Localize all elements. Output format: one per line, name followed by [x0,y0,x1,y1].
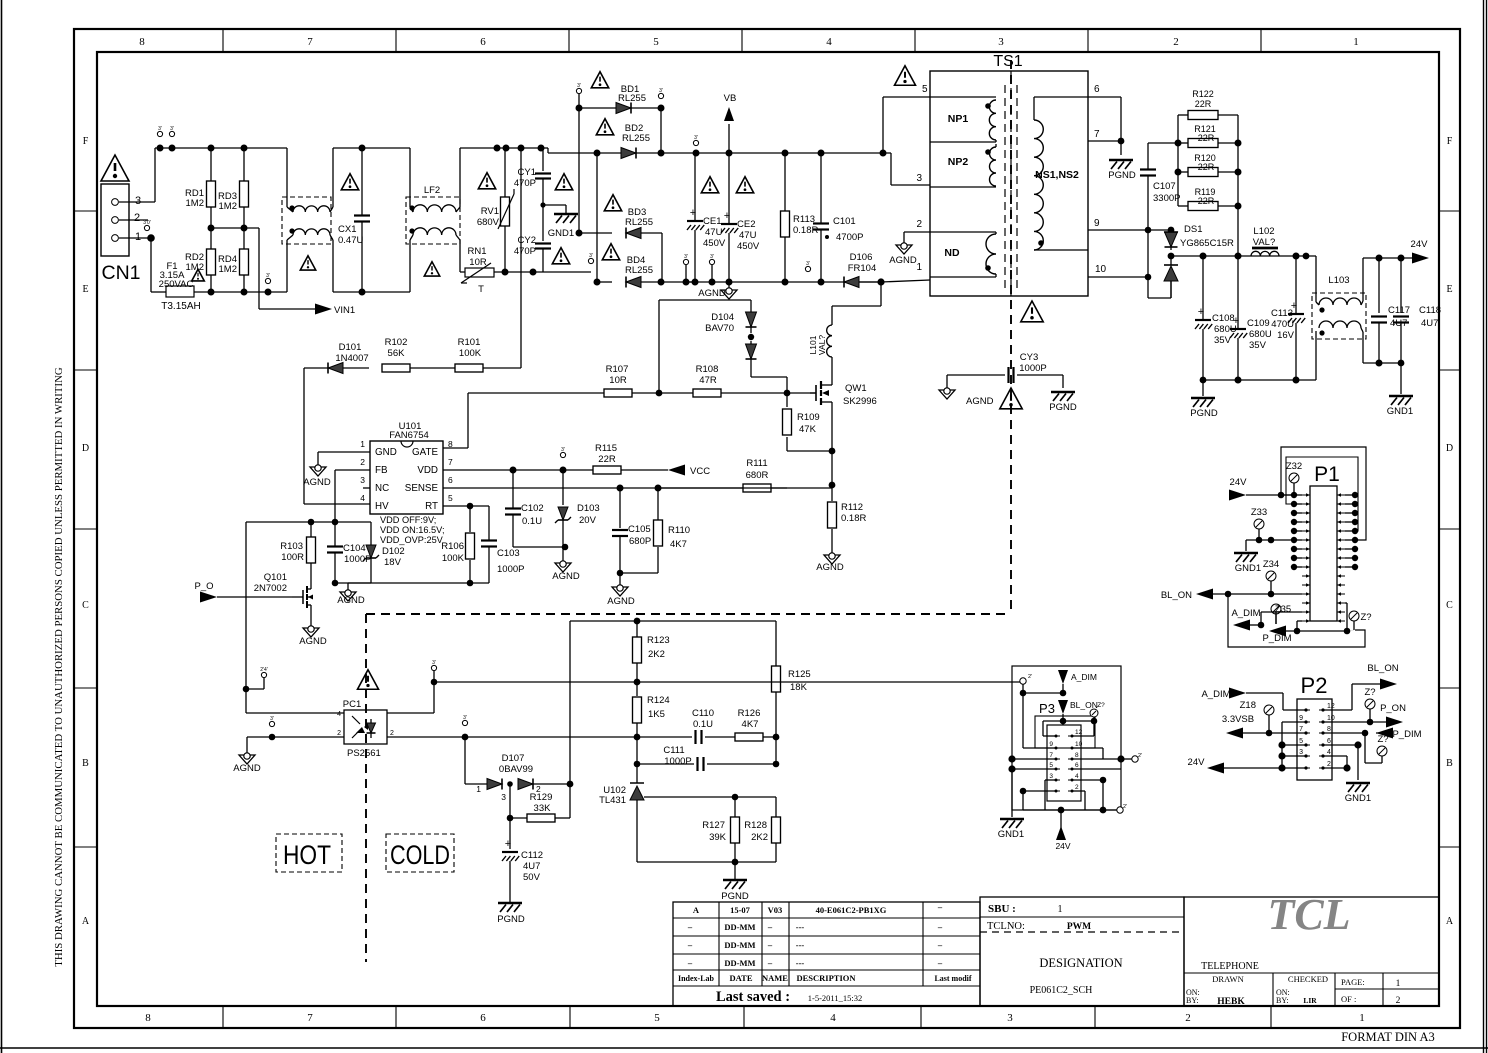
svg-text:TS1: TS1 [993,53,1022,70]
svg-text:8: 8 [448,439,453,449]
svg-text:FAN6754: FAN6754 [389,430,429,441]
svg-text:BAV70: BAV70 [705,323,734,334]
svg-text:R127: R127 [702,820,725,831]
svg-text:0BAV99: 0BAV99 [499,764,533,775]
svg-text:1: 1 [1396,979,1401,989]
svg-text:5: 5 [922,84,928,95]
capacitor CE1 [687,153,726,282]
svg-text:4: 4 [1075,773,1079,780]
svg-text:3300P: 3300P [1153,193,1180,204]
capacitor C103 [481,541,524,584]
wire [335,469,370,471]
svg-text:C118: C118 [1419,305,1441,316]
node BL_ON [1161,589,1302,602]
svg-text:AGND: AGND [607,596,635,607]
svg-text:R129: R129 [530,792,553,803]
svg-text:+: + [690,207,696,219]
svg-text:A_DIM: A_DIM [1231,608,1260,619]
svg-text:C101: C101 [833,216,856,227]
inductor L101 [808,325,832,357]
ground PGND [497,903,525,925]
resistor R107 [604,364,632,397]
node A_DIM [1201,688,1306,711]
svg-text:6: 6 [1094,84,1100,95]
svg-text:RL255: RL255 [618,93,646,104]
svg-text:FR104: FR104 [848,263,877,274]
wire [637,861,776,863]
svg-text:R108: R108 [696,364,719,375]
node P_DIM [1262,603,1350,644]
svg-text:–: – [687,922,693,932]
svg-text:4K7: 4K7 [670,539,687,550]
svg-text:C109: C109 [1247,318,1270,329]
svg-text:1M2: 1M2 [219,201,237,212]
node 24V feed [1229,477,1294,501]
svg-text:1: 1 [1359,1012,1365,1024]
capacitor C110 [637,708,735,744]
wire [1171,255,1316,257]
svg-text:V03: V03 [768,905,783,915]
svg-text:24V: 24V [1055,841,1070,851]
capacitor C101 [813,153,863,282]
svg-text:–: – [767,958,773,968]
svg-text:C112: C112 [521,850,543,861]
svg-text:3': 3' [806,261,810,267]
svg-text:B: B [82,758,89,769]
capacitor C104 [327,522,371,586]
svg-text:3': 3' [577,83,581,89]
node tick [462,720,467,725]
svg-text:LF2: LF2 [424,185,440,196]
warning symbol [358,670,379,690]
ground PGND [1190,380,1218,419]
wire [1228,594,1365,647]
svg-text:8: 8 [1327,726,1331,733]
svg-text:10R: 10R [609,375,627,386]
connector P3 [1012,666,1121,810]
warning symbol [478,173,495,189]
diode DS1 [1164,224,1234,259]
test point Z18 [1240,700,1274,736]
svg-text:D: D [1446,443,1453,454]
svg-text:D101: D101 [339,342,362,353]
svg-text:QW1: QW1 [845,383,867,394]
wire [1294,494,1302,496]
svg-text:NP1: NP1 [948,113,969,125]
svg-text:F: F [83,136,89,147]
svg-text:4: 4 [826,36,832,48]
node tick [683,259,688,264]
warning symbol [424,262,439,276]
test point Z32 [1286,461,1302,495]
ground PGND [721,862,749,902]
resistor R106 [441,533,474,586]
svg-text:L103: L103 [1328,275,1349,286]
svg-text:5: 5 [1299,738,1303,745]
svg-text:R103: R103 [280,541,303,552]
svg-text:24V: 24V [1188,757,1206,768]
svg-text:1000P: 1000P [344,554,371,565]
svg-text:8: 8 [139,36,145,48]
resistor R108 [693,364,816,397]
node VCC [668,465,710,478]
svg-text:P2: P2 [1301,673,1328,698]
svg-text:100K: 100K [459,348,482,359]
node tick [269,721,274,726]
warning symbol [300,256,315,270]
warning symbol [895,66,929,95]
svg-text:VCC: VCC [690,466,710,477]
svg-text:RN1: RN1 [467,246,486,257]
svg-text:47K: 47K [799,424,817,435]
svg-text:C117: C117 [1388,305,1410,316]
svg-text:VDD: VDD [417,465,438,476]
svg-text:RL255: RL255 [622,133,650,144]
svg-text:680V: 680V [477,217,500,228]
svg-text:Z33: Z33 [1251,507,1267,518]
wire [1363,257,1412,259]
svg-text:R125: R125 [788,669,811,680]
svg-text:---: --- [796,922,805,932]
svg-text:22R: 22R [598,454,616,465]
node A_DIM [1020,670,1097,696]
resistor RD2 [185,228,216,292]
svg-text:PWM: PWM [1067,922,1091,932]
svg-text:5: 5 [1049,762,1053,769]
node BL_ON [1323,663,1399,710]
svg-text:D103: D103 [577,503,600,514]
resistor R129 [510,784,570,822]
svg-text:20V: 20V [579,515,597,526]
svg-text:Last saved :: Last saved : [716,989,790,1005]
warning symbol [701,177,718,193]
svg-text:2: 2 [1327,761,1331,768]
svg-text:2N7002: 2N7002 [254,583,287,594]
svg-text:3: 3 [916,173,922,184]
svg-text:VDD_OVP:25V: VDD_OVP:25V [380,535,444,545]
svg-text:3: 3 [1049,773,1053,780]
isolation dashed line [365,614,367,962]
warning symbol [555,174,572,190]
svg-text:DS1: DS1 [1184,224,1202,235]
svg-text:DRAWN: DRAWN [1212,974,1243,984]
svg-text:10R: 10R [469,257,487,268]
svg-text:7: 7 [448,457,453,467]
svg-text:250VAC: 250VAC [159,279,194,290]
svg-text:GND1: GND1 [998,829,1024,840]
svg-text:CN1: CN1 [101,262,140,284]
svg-text:18K: 18K [790,682,808,693]
svg-text:5: 5 [448,493,453,503]
wire [443,487,787,489]
wire [686,281,881,283]
svg-text:1M2: 1M2 [186,262,204,273]
svg-text:VIN1: VIN1 [334,305,355,316]
svg-text:A: A [82,916,90,927]
wire [1246,539,1294,541]
svg-text:Q101: Q101 [264,572,287,583]
svg-text:0.18R: 0.18R [841,513,866,524]
resistor R109 [783,393,836,454]
svg-text:7: 7 [1299,726,1303,733]
diode BD3 [579,207,662,282]
svg-text:35V: 35V [1214,335,1232,346]
capacitor C117 [1371,258,1410,363]
svg-text:6: 6 [480,1012,486,1024]
svg-text:1: 1 [360,439,365,449]
svg-text:C113: C113 [1271,308,1293,319]
svg-text:C102: C102 [521,503,544,514]
warning symbol [591,72,608,88]
wire [1282,721,1306,723]
test point Z35 [1271,604,1291,624]
test point Z? [1365,733,1389,763]
svg-text:2: 2 [337,730,341,737]
svg-text:C: C [82,600,89,611]
svg-text:BY:: BY: [1276,996,1289,1005]
svg-text:GND1: GND1 [1235,563,1261,574]
svg-text:2: 2 [1075,784,1079,791]
thermistor RN1 [460,246,539,295]
svg-text:PE061C2_SCH: PE061C2_SCH [1030,985,1093,996]
node P_O [194,581,292,603]
wire [387,712,434,714]
svg-text:4: 4 [337,711,341,718]
ground AGND [607,573,635,607]
svg-text:40-E061C2-PB1XG: 40-E061C2-PB1XG [816,905,887,915]
transformer TS1 [916,53,1106,296]
svg-text:LIR: LIR [1303,996,1317,1005]
diode BD2 [543,123,891,159]
warning symbol [736,177,753,193]
svg-text:–: – [937,922,943,932]
svg-text:Z?: Z? [1097,702,1105,709]
svg-text:1: 1 [916,262,922,273]
wire [658,487,743,489]
connector CN1 [101,184,141,284]
capacitor C112 [502,818,543,902]
svg-text:R112: R112 [841,502,863,513]
svg-text:3': 3' [659,88,663,94]
svg-text:PGND: PGND [1049,402,1077,413]
svg-text:24V: 24V [1230,477,1248,488]
svg-text:R110: R110 [668,525,690,536]
warning symbol [604,195,621,211]
isolation dashed line HOT/COLD [1010,60,1012,614]
svg-text:7: 7 [307,36,313,48]
resistor R111 [743,458,832,492]
warning symbol [101,155,129,181]
svg-text:C108: C108 [1212,313,1235,324]
svg-text:VDD OFF:9V;: VDD OFF:9V; [380,515,436,525]
svg-text:D107: D107 [502,753,525,764]
capacitor CY3 [947,352,1063,390]
node P_DIM [1323,728,1422,741]
warning symbol [552,248,569,264]
resistor R128 [744,817,780,862]
resistor R101 [455,148,521,372]
svg-text:–: – [767,940,773,950]
node 24V [1188,757,1306,774]
svg-text:R107: R107 [606,364,629,375]
filter choke LF2 [406,148,460,292]
svg-text:GND1: GND1 [548,228,574,239]
svg-text:4U7: 4U7 [1421,318,1438,329]
resistor R112 [828,485,867,554]
svg-text:AGND: AGND [816,562,844,573]
svg-text:22R: 22R [1198,162,1215,172]
wire [831,412,833,485]
node tick [658,93,663,98]
svg-text:---: --- [796,958,805,968]
svg-text:8: 8 [1075,752,1079,759]
node tick [144,225,149,230]
svg-text:VB: VB [724,93,737,104]
svg-text:3': 3' [270,716,274,722]
wire [1088,276,1148,278]
svg-text:2': 2' [1028,674,1032,680]
svg-text:3': 3' [170,126,174,132]
svg-text:DATE: DATE [730,973,753,983]
op-amp U101 [360,421,453,545]
node P_ON [1323,703,1406,728]
wire [1088,96,1121,98]
svg-text:AGND: AGND [552,571,580,582]
ground AGND [337,583,365,606]
svg-text:Z?: Z? [1377,734,1388,745]
svg-text:–: – [937,940,943,950]
svg-text:1M2: 1M2 [219,264,237,275]
wire [596,153,598,282]
svg-text:2: 2 [1173,36,1179,48]
svg-text:3': 3' [710,254,714,260]
resistor R125 [772,621,811,740]
label HOT [276,834,342,872]
wire [882,97,884,153]
svg-text:RL255: RL255 [625,265,653,276]
wire [1177,115,1179,206]
svg-text:1000P: 1000P [497,564,524,575]
ground AGND [552,561,580,582]
label COLD [386,834,454,872]
wire [1323,755,1347,757]
svg-text:RL255: RL255 [625,217,653,228]
svg-text:3: 3 [1007,1012,1013,1024]
svg-text:AGND: AGND [889,255,917,266]
svg-text:_: _ [648,787,655,797]
svg-text:A_DIM: A_DIM [1071,672,1097,682]
ground GND1 [998,819,1024,840]
ground AGND [939,388,994,407]
svg-text:3.3VSB: 3.3VSB [1222,714,1254,725]
svg-text:FORMAT DIN A3: FORMAT DIN A3 [1341,1030,1435,1044]
svg-text:6: 6 [448,475,453,485]
capacitor C107 [1140,143,1180,298]
svg-text:R123: R123 [647,635,670,646]
svg-text:9: 9 [1049,741,1053,748]
svg-text:FB: FB [375,465,388,476]
transistor Q101 [254,572,313,628]
svg-text:680P: 680P [629,536,651,547]
wire [1008,755,1015,762]
wire [348,582,489,584]
svg-text:680R: 680R [746,470,769,481]
svg-text:R109: R109 [797,412,820,423]
wire [245,522,247,713]
svg-text:T3.15AH: T3.15AH [161,301,200,312]
resistor RD1 [185,148,216,228]
wire [246,521,335,523]
filter choke [282,148,333,292]
svg-text:15-07: 15-07 [730,905,751,915]
node tick [431,665,436,670]
svg-text:AGND: AGND [698,288,726,299]
svg-text:Last modif: Last modif [934,974,971,983]
svg-text:–: – [687,958,693,968]
svg-text:22R: 22R [1195,99,1212,109]
svg-text:AGND: AGND [966,396,994,407]
svg-text:A: A [1446,916,1454,927]
svg-text:2: 2 [390,730,394,737]
resistor R126 [735,708,776,741]
svg-text:1: 1 [135,231,141,243]
svg-text:2: 2 [134,212,140,224]
warning symbol [341,174,358,190]
svg-text:450V: 450V [703,238,726,249]
svg-text:1: 1 [1353,36,1359,48]
svg-text:470P: 470P [514,178,536,189]
wire [119,201,155,203]
svg-text:2: 2 [1396,996,1401,1006]
svg-text:Z32: Z32 [1286,461,1302,472]
svg-text:24V: 24V [1411,239,1429,250]
svg-text:3': 3' [694,135,698,141]
svg-text:CHECKED: CHECKED [1288,974,1328,984]
svg-text:2': 2' [1138,753,1142,759]
capacitor CE2 [721,153,760,282]
svg-text:Z?: Z? [1360,612,1371,623]
node A_DIM [1231,608,1302,631]
svg-text:–: – [687,940,693,950]
diode D107 [465,737,573,802]
diode DS1 second [1164,256,1178,298]
svg-text:2: 2 [916,219,922,230]
svg-text:R115: R115 [595,443,617,454]
diode D106 [844,252,881,288]
svg-text:470P: 470P [514,246,536,257]
svg-text:R102: R102 [385,337,408,348]
svg-text:1N4007: 1N4007 [335,353,368,364]
capacitor C105 [612,488,651,576]
node VIN1 [259,228,355,316]
svg-text:4: 4 [1327,749,1331,756]
svg-text:DD-MM: DD-MM [724,958,755,968]
node tick [265,278,270,283]
svg-text:0.47U: 0.47U [338,235,363,246]
connector P1 [1302,463,1345,623]
svg-text:RT: RT [425,501,438,512]
node VB [724,93,737,153]
svg-text:GND1: GND1 [1387,406,1413,417]
wire [570,620,776,622]
svg-text:HOT: HOT [283,840,331,870]
svg-text:F: F [1447,136,1453,147]
svg-text:22R: 22R [1198,196,1215,206]
node tick [560,452,565,457]
capacitor CX1 [333,145,370,296]
svg-text:6: 6 [480,36,486,48]
svg-text:33K: 33K [534,803,552,814]
